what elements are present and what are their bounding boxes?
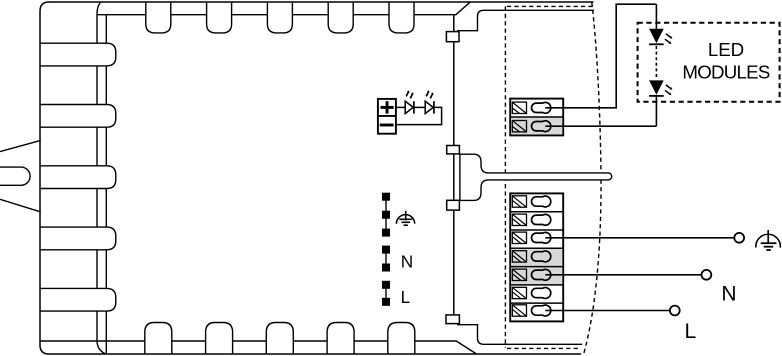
housing left tab 3: [40, 166, 116, 189]
minus sign: [380, 124, 394, 127]
wire from D2 back to minus: [396, 107, 442, 124]
wire mains L lead (dashed): [385, 284, 387, 302]
housing cut-away dashed vertical line: [504, 6, 506, 347]
housing cut-away dashed top line: [507, 5, 594, 7]
TB2 terminal 3 release hole: [532, 232, 551, 243]
earth symbol (small): [396, 211, 414, 225]
TB1 terminal 1 release hole: [532, 102, 551, 113]
wire LED- return from LED modules: [545, 125, 656, 127]
wire internal wall line A: [97, 3, 105, 354]
wire inner top edge of housing: [97, 2, 470, 15]
wire mains earth lead (dashed): [385, 196, 387, 232]
TB1 terminal 2 release hole: [532, 121, 551, 132]
plus sign: [381, 101, 394, 113]
wire internal wall line B: [105, 15, 107, 354]
housing bottom tab 4: [327, 323, 354, 355]
housing bottom tab 1: [145, 323, 172, 355]
wire terminal compartment top shelf: [457, 10, 594, 30]
svg-text:L: L: [685, 320, 697, 343]
mains lead dash mark 2: [382, 211, 390, 219]
TB2 terminal 6 release hole: [532, 288, 551, 299]
TB1 terminal 2 hatch: [512, 121, 526, 132]
LED MODULES box: [638, 23, 780, 102]
housing top tab 5: [389, 2, 414, 33]
mains lead dash mark 3: [382, 229, 390, 237]
housing top tab 3: [267, 2, 292, 33]
junction box J2: [447, 146, 460, 154]
housing top tab 4: [328, 2, 353, 33]
wire terminal compartment bottom shelf: [457, 325, 582, 345]
svg-text:L: L: [401, 287, 411, 307]
wire internal bus: [453, 15, 455, 319]
terminal block TB2 (mains): [510, 193, 563, 321]
TB2 terminal 5 hatch: [512, 269, 526, 280]
TB2 terminal 7 release hole: [532, 305, 551, 316]
wire earth output: [545, 237, 734, 239]
junction box J1: [446, 32, 459, 42]
polarity box U1: [378, 99, 396, 134]
housing cut-away dashed right curve: [584, 3, 602, 355]
housing left tab 4: [40, 227, 116, 250]
svg-text:MODULES: MODULES: [682, 62, 769, 83]
LED D4: [649, 80, 672, 96]
TB2 terminal 2 hatch: [512, 214, 526, 225]
TB2 terminal 1 hatch: [512, 196, 526, 207]
mains lead dash mark 7: [382, 298, 390, 306]
wire LED module chain top: [655, 4, 657, 29]
junction box J3: [447, 200, 460, 210]
svg-text:N: N: [721, 282, 736, 305]
wire from D1 to D2: [414, 106, 425, 108]
wire LED+ from terminal to LED modules: [545, 4, 656, 108]
mains lead dash mark 5: [382, 264, 390, 272]
housing mounting bracket screw slot: [0, 167, 30, 185]
wire L output: [545, 310, 670, 312]
TB2 terminal 5 release hole: [532, 269, 551, 280]
wire dashed link D3 to D4: [655, 46, 657, 80]
housing bottom tab 3: [266, 323, 293, 355]
TB2 terminal 1 release hole: [532, 196, 551, 207]
housing mounting bracket upper edge: [0, 140, 41, 151]
wire mains N lead (dashed): [385, 249, 387, 267]
TB2 terminal 4 release hole: [532, 251, 551, 262]
TB1 terminal 1 hatch: [512, 102, 526, 113]
mains lead dash mark 4: [382, 246, 390, 254]
TB2 terminal 2 release hole: [532, 214, 551, 225]
terminal block TB1 (LED output): [510, 99, 563, 136]
housing cut-away dashed bottom line: [507, 347, 578, 349]
TB2 terminal 6 hatch: [512, 287, 526, 298]
svg-text:LED: LED: [708, 39, 744, 60]
housing bottom tab 2: [206, 323, 233, 355]
housing top tab 1: [146, 2, 171, 33]
LED D1: [405, 90, 414, 113]
LED D2: [425, 90, 434, 113]
housing left tab 5: [40, 288, 116, 311]
svg-text:N: N: [401, 252, 413, 272]
node N terminal circle: [702, 270, 712, 280]
TB2 terminal 7 hatch: [512, 305, 526, 316]
wire from plus to LED D1: [396, 106, 405, 108]
mains lead dash mark 6: [382, 281, 390, 289]
junction box J4: [446, 315, 459, 324]
housing left tab 2: [40, 105, 116, 128]
wire LED module chain bottom: [655, 96, 657, 126]
mains lead dash mark 1: [382, 193, 390, 201]
TB2 terminal 3 hatch: [512, 232, 526, 243]
LED driver housing outer contour: [40, 2, 594, 354]
housing bottom tab 5: [388, 323, 415, 355]
housing left tab 1: [40, 43, 116, 66]
LED D3: [649, 29, 672, 45]
TB2 terminal 4 hatch: [512, 251, 526, 262]
wire inner bottom edge of housing: [40, 341, 476, 354]
node L terminal circle: [670, 306, 680, 316]
wire internal cable to terminal compartment: [460, 154, 612, 200]
housing mounting bracket lower edge: [0, 199, 41, 212]
earth symbol (output): [756, 230, 781, 250]
node earth terminal circle: [734, 233, 744, 243]
housing top tab 2: [207, 2, 232, 33]
wire N output: [545, 274, 701, 276]
